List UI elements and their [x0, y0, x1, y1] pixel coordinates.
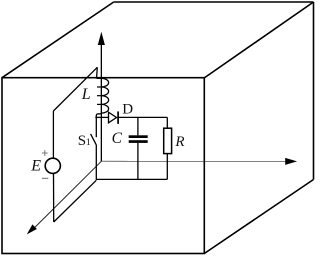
- capacitor C bottom plate: [129, 140, 148, 143]
- cube top-right edge: [204, 2, 313, 78]
- axis z arrowhead: [27, 224, 37, 234]
- svg-text:R: R: [174, 134, 184, 150]
- wire: top wire right segment: [118, 116, 167, 118]
- wire: left branch lower (switch to bottom wire): [95, 145, 97, 180]
- svg-text:C: C: [112, 130, 123, 147]
- svg-text:D: D: [122, 102, 133, 118]
- axis z (diagonal, toward viewer, lower-left): [34, 161, 102, 228]
- wire: source loop top edge (panel top): [53, 67, 97, 111]
- battery minus sign: [42, 177, 48, 179]
- battery plus sign: [42, 150, 48, 156]
- wire: bottom wire: [96, 178, 167, 180]
- svg-text:1: 1: [86, 138, 91, 148]
- battery E circle: [45, 158, 60, 173]
- wire: R branch top: [166, 117, 168, 128]
- diode D cathode bar: [117, 111, 119, 124]
- svg-text:L: L: [81, 86, 91, 103]
- diode D triangle: [109, 112, 117, 123]
- cube bottom-right edge: [204, 180, 313, 254]
- wire: peak down to coil entry: [96, 67, 99, 78]
- svg-text:E: E: [30, 157, 41, 174]
- switch S1 blade: [91, 134, 97, 145]
- wire: panel bottom edge: [54, 180, 97, 222]
- cube back-right vertical edge: [313, 2, 315, 180]
- axis y (vertical, up): [100, 44, 102, 162]
- wire: R branch bottom: [166, 154, 168, 180]
- inductor L coil: [96, 78, 108, 116]
- cube top-left edge: [2, 2, 114, 78]
- axis x (horizontal, to the right): [101, 160, 286, 162]
- inductor coil back ticks: [97, 87, 101, 104]
- resistor R body: [164, 128, 172, 153]
- wire: panel left edge upper (E top lead): [52, 111, 54, 158]
- axis y arrowhead: [98, 32, 105, 45]
- cube front face: [2, 78, 204, 254]
- wire: top wire left segment: [95, 116, 108, 118]
- axis x arrowhead: [285, 158, 297, 165]
- wire: C branch top: [137, 117, 139, 135]
- svg-text:S: S: [78, 133, 86, 149]
- wire: panel left edge lower (E bottom lead): [53, 174, 55, 222]
- wire: C branch bottom: [137, 143, 139, 180]
- cube back top edge: [114, 1, 314, 3]
- capacitor C top plate: [129, 135, 148, 138]
- wire: left branch upper (coil bottom to switch contact): [95, 116, 97, 138]
